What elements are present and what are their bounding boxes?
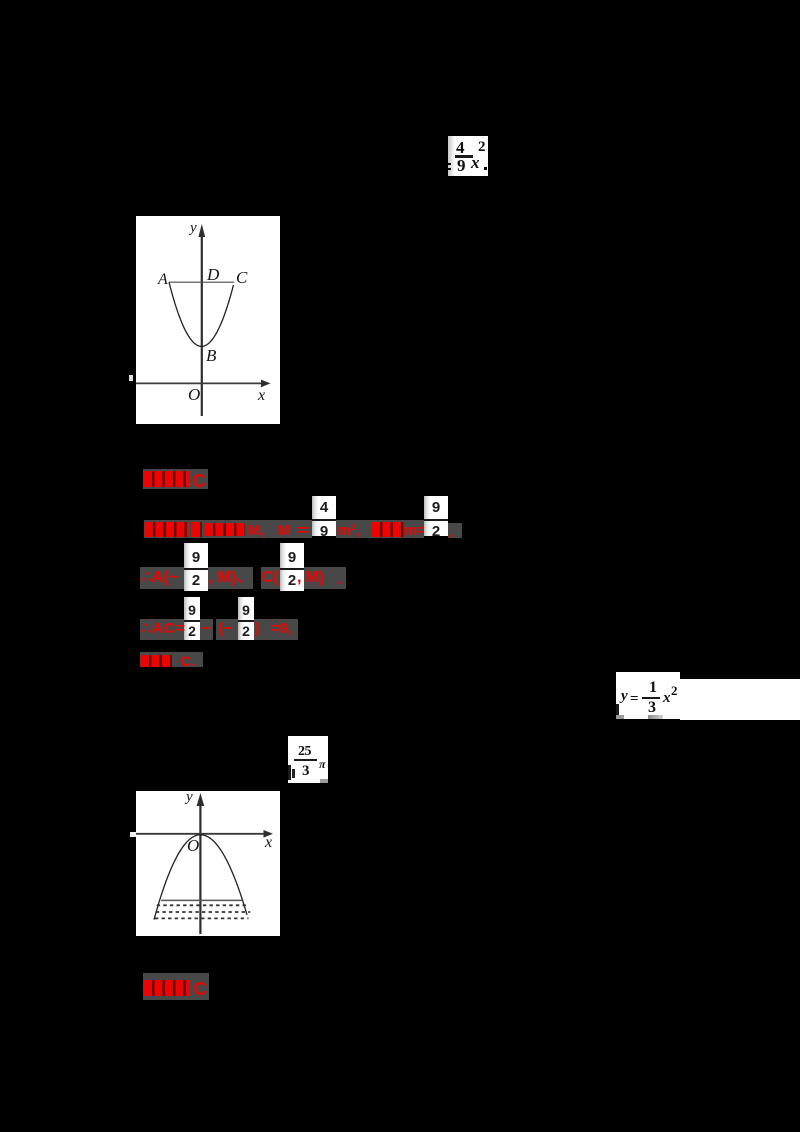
- svg-text:x: x: [257, 387, 265, 404]
- svg-text:B: B: [206, 346, 217, 365]
- red line 4: [140, 619, 184, 640]
- graph 2: [136, 791, 280, 936]
- formula image: 25/3 pi: [288, 736, 328, 783]
- formula image: y=1/3 x^2: [616, 672, 680, 719]
- svg-text:y: y: [184, 791, 193, 805]
- inline fraction 9/2 (line 3a): [184, 543, 208, 591]
- inline fraction 9/2 (line 3b): [280, 543, 304, 591]
- svg-text:D: D: [206, 265, 220, 284]
- white notch left of graph 2 x-axis: [130, 832, 136, 837]
- red line 3: [140, 567, 184, 589]
- answer letter C: [193, 472, 206, 490]
- formula image: = 4/9 x^2 (top): [448, 136, 488, 176]
- svg-text:C: C: [236, 268, 248, 287]
- white band of formula image extending to page right edge: [680, 679, 800, 720]
- svg-text:A: A: [157, 271, 168, 288]
- inline fraction 4/9: [312, 496, 336, 536]
- inline fraction 9/2 (line 4a): [184, 597, 200, 640]
- svg-text:y: y: [188, 220, 197, 236]
- x axis: [136, 382, 262, 384]
- segment A-C: [169, 281, 234, 283]
- inline fraction 9/2: [424, 496, 448, 536]
- inline fraction 9/2 (line 4b): [238, 597, 254, 640]
- svg-text:O: O: [188, 385, 200, 404]
- red bottom: 【答案】C: [143, 973, 209, 1000]
- parabola: [154, 835, 247, 920]
- dashed lines: [157, 904, 248, 906]
- red line 1: 【答案】C: [143, 469, 208, 489]
- chord: [161, 899, 242, 901]
- y axis: [199, 800, 201, 934]
- svg-text:O: O: [187, 836, 199, 855]
- svg-text:x: x: [264, 834, 272, 851]
- white notch left of graph 1 x-axis: [129, 375, 133, 381]
- red line 5: 故选C: [140, 652, 203, 667]
- graph 1: [136, 216, 280, 424]
- parabola: [169, 282, 234, 346]
- red line 2: 【解析】...: [144, 520, 312, 538]
- x axis: [136, 833, 265, 835]
- y axis: [201, 230, 203, 416]
